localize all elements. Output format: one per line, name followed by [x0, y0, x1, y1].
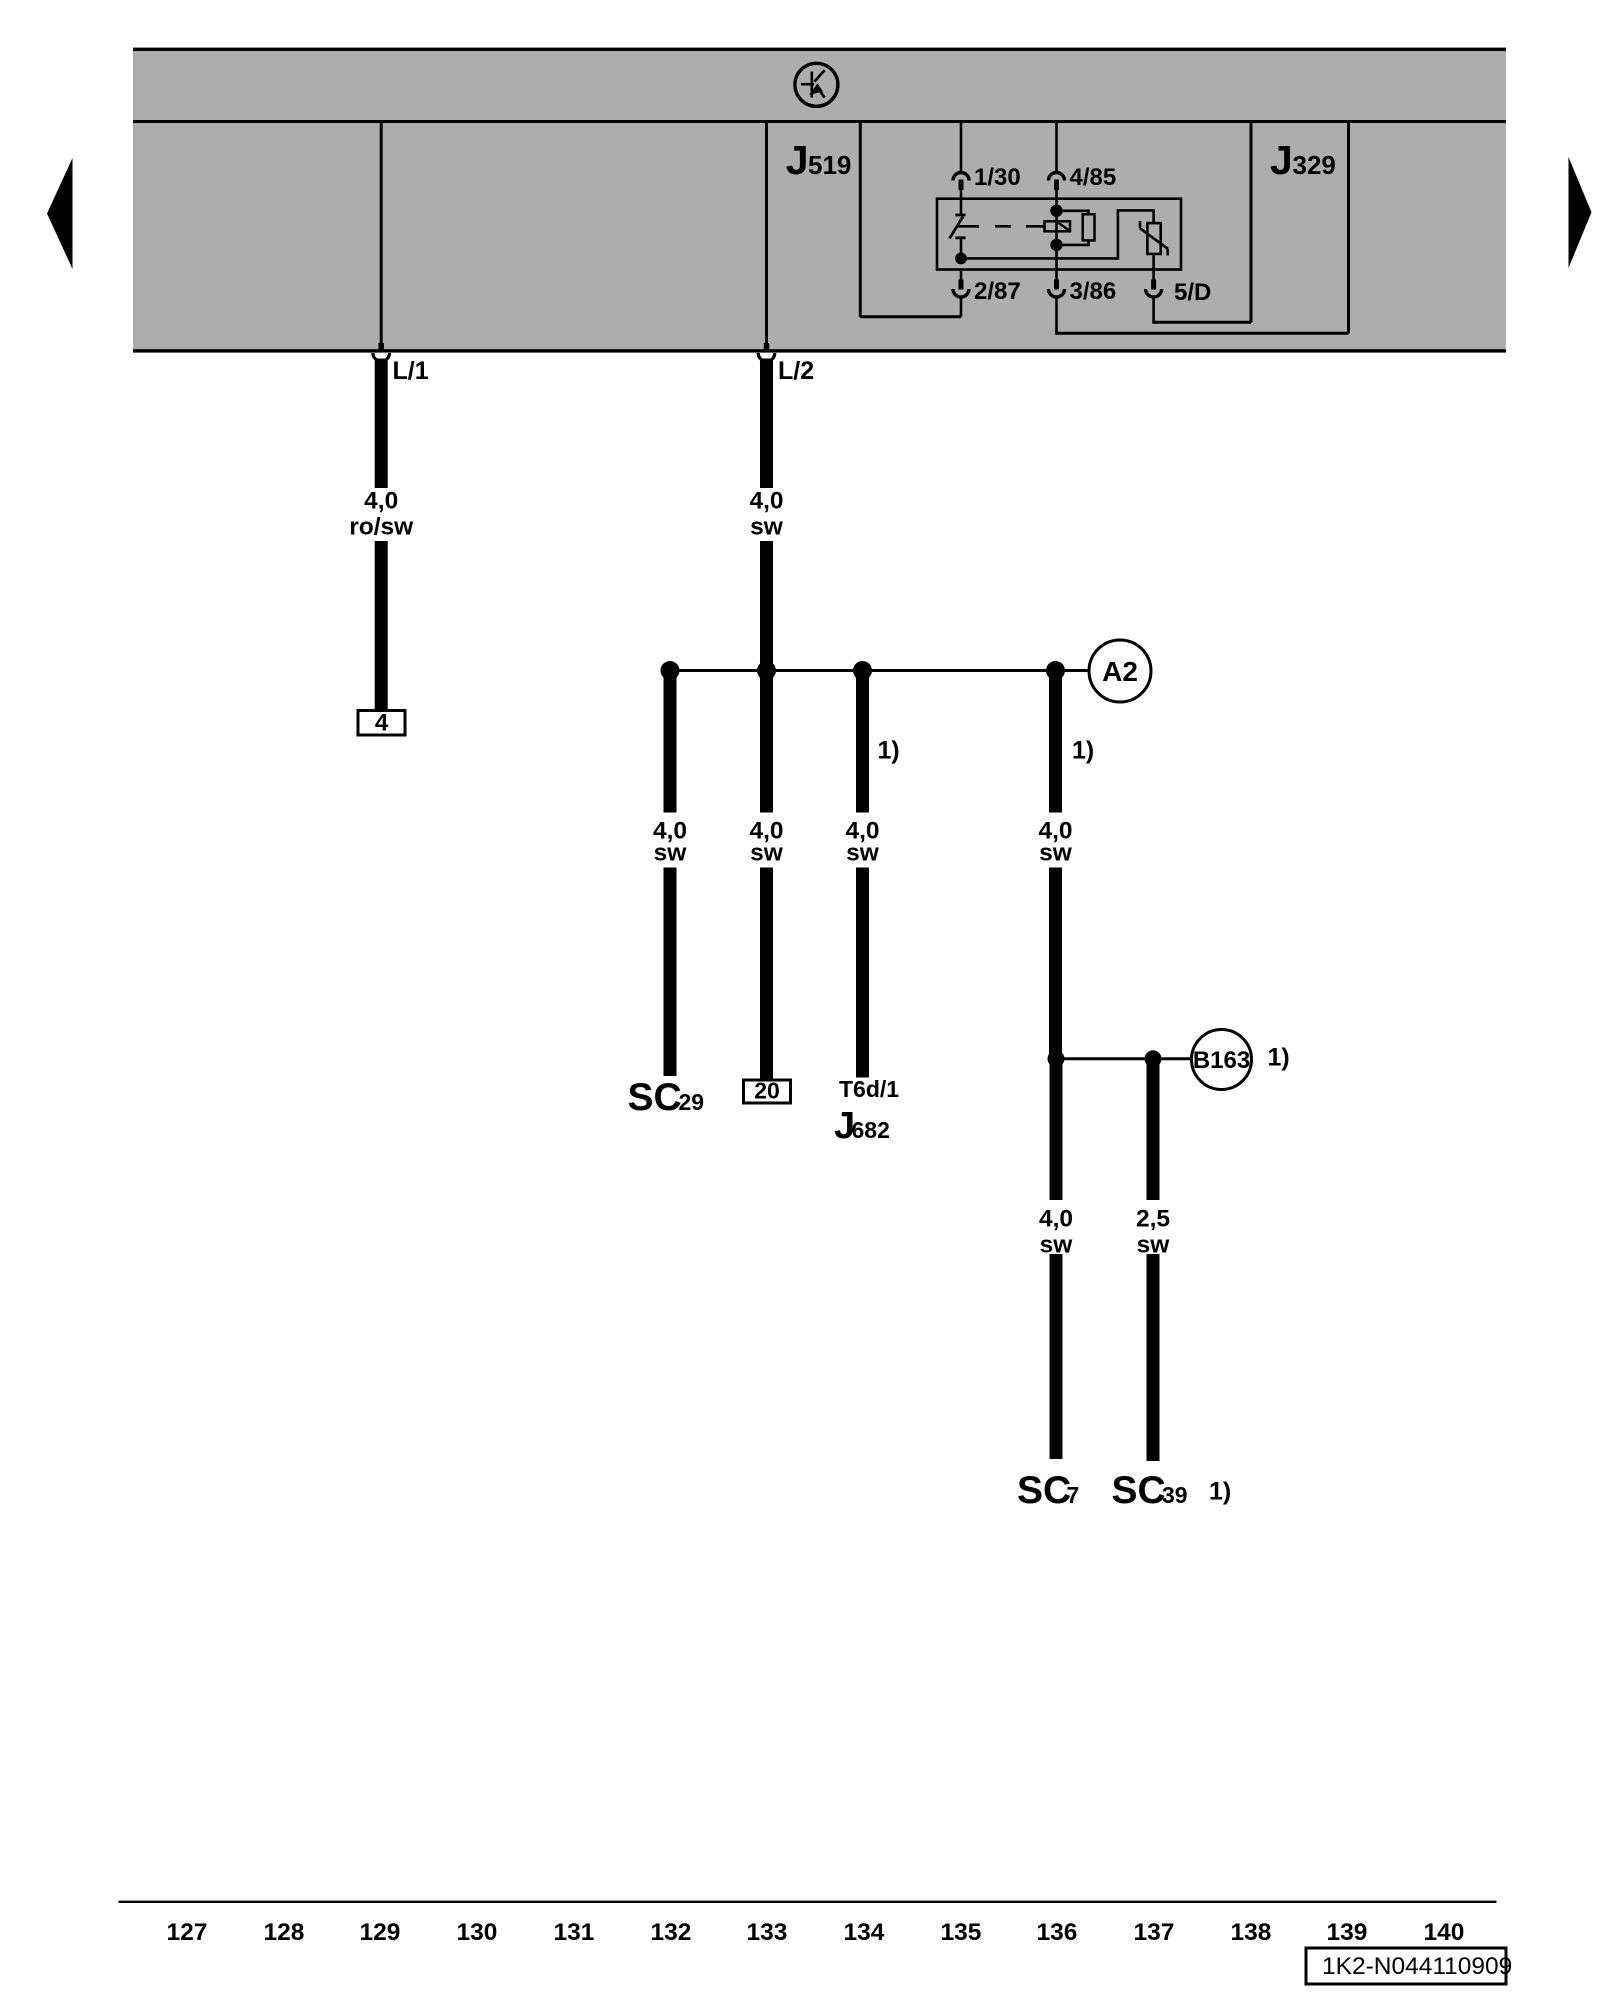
svg-text:138: 138: [1231, 1919, 1272, 1946]
terminal L/1 connector cup: [373, 353, 390, 361]
pin 5/D lead: [1146, 270, 1251, 323]
svg-text:sw: sw: [750, 514, 784, 541]
wire label 2,5 sw (SC39): [1136, 1206, 1170, 1259]
svg-text:134: 134: [844, 1919, 885, 1946]
node bus line to B163: [1056, 1057, 1192, 1060]
svg-text:A2: A2: [1102, 656, 1138, 687]
wire label 4,0 sw (J682): [845, 818, 879, 867]
wire A2 node to B163 node lower: [1049, 868, 1062, 1060]
svg-text:1/30: 1/30: [974, 164, 1021, 191]
terminal L/2 lead inside band: [765, 122, 768, 352]
svg-text:519: 519: [808, 150, 851, 180]
control unit J519 boundary line: [860, 122, 961, 318]
wire label 4,0 sw (L/2 lower): [749, 818, 783, 867]
wire A2 node to B163 node upper: [1049, 671, 1062, 813]
junction dot at switch output: [955, 253, 967, 265]
relay box outline: [937, 199, 1181, 270]
svg-text:131: 131: [554, 1919, 595, 1946]
fuse SC29 label: [628, 1076, 705, 1119]
battery positive symbol: [795, 63, 838, 106]
relay coil: [1045, 199, 1071, 270]
pin 4/85 lead: [1049, 122, 1065, 199]
svg-text:20: 20: [754, 1078, 780, 1104]
svg-text:135: 135: [941, 1919, 982, 1946]
fuse position 20 box: [744, 1078, 791, 1104]
svg-text:4,0: 4,0: [1039, 1206, 1073, 1233]
svg-text:4,0: 4,0: [364, 488, 398, 515]
svg-text:L/2: L/2: [778, 357, 814, 385]
wire to J682 lower segment: [856, 868, 869, 1078]
wire L/2 segment 3: [760, 868, 773, 1081]
svg-text:sw: sw: [846, 840, 880, 867]
wire label 4,0 sw (SC29): [653, 818, 687, 867]
busbar band (power rail area): [133, 48, 1506, 353]
svg-text:3/86: 3/86: [1070, 278, 1117, 305]
pin 2/87 lead: [953, 270, 969, 317]
svg-text:133: 133: [747, 1919, 788, 1946]
fuse SC7 label: [1017, 1469, 1079, 1512]
relay J682 label: [834, 1105, 890, 1147]
right page arrow: [1569, 157, 1592, 268]
svg-text:4,0: 4,0: [749, 488, 783, 515]
svg-text:J: J: [1270, 137, 1293, 183]
junction dot node B163-1: [1048, 1050, 1065, 1067]
svg-text:B163: B163: [1193, 1047, 1250, 1074]
svg-text:1): 1): [1209, 1478, 1231, 1506]
svg-text:329: 329: [1293, 150, 1336, 180]
junction dot node A2-4: [1046, 661, 1065, 680]
wire L/2 segment 2: [760, 541, 773, 813]
junction dot node A2-3: [853, 661, 872, 680]
wire L/2 (4,0 sw) segment 1: [760, 359, 773, 489]
resistor parallel to coil: [1057, 211, 1095, 245]
svg-text:1): 1): [1072, 737, 1094, 765]
relay J329 boundary lines: [1251, 122, 1349, 334]
wire label 4,0 sw (SC7): [1039, 1206, 1073, 1259]
terminal L/2 connector cup: [758, 353, 775, 361]
svg-text:ro/sw: ro/sw: [349, 514, 414, 541]
svg-text:136: 136: [1037, 1919, 1078, 1946]
svg-text:140: 140: [1424, 1919, 1465, 1946]
wire to SC39 upper segment: [1147, 1059, 1160, 1200]
svg-text:L/1: L/1: [393, 357, 429, 385]
svg-text:7: 7: [1067, 1482, 1080, 1508]
svg-text:5/D: 5/D: [1174, 279, 1211, 306]
svg-text:SC: SC: [1112, 1469, 1166, 1512]
relay switch contact: [950, 199, 966, 259]
wire to SC39 lower segment: [1147, 1254, 1160, 1461]
svg-text:139: 139: [1327, 1919, 1368, 1946]
relay actuation dashed link: [958, 225, 1045, 228]
svg-text:29: 29: [679, 1089, 705, 1115]
svg-text:sw: sw: [654, 840, 688, 867]
svg-text:129: 129: [360, 1919, 401, 1946]
svg-text:137: 137: [1134, 1919, 1175, 1946]
wire label 4,0 sw (L/2 upper): [749, 488, 783, 541]
node B163 circle: [1192, 1030, 1252, 1090]
junction dot node A2-2: [757, 661, 776, 680]
svg-text:4/85: 4/85: [1070, 164, 1117, 191]
svg-text:J: J: [786, 137, 809, 183]
svg-text:SC: SC: [1017, 1469, 1071, 1512]
relay J329 label: [1270, 137, 1336, 183]
svg-text:2/87: 2/87: [974, 278, 1021, 305]
junction dot node B163-2: [1145, 1050, 1162, 1067]
current track numbers: [167, 1919, 1465, 1946]
wire to SC7 lower segment: [1050, 1254, 1063, 1459]
current track scale line: [119, 1901, 1497, 1903]
svg-text:2,5: 2,5: [1136, 1206, 1170, 1233]
junction dot node A2-1: [661, 661, 680, 680]
svg-text:127: 127: [167, 1919, 208, 1946]
svg-text:132: 132: [651, 1919, 692, 1946]
svg-text:sw: sw: [750, 840, 784, 867]
svg-text:1): 1): [878, 737, 900, 765]
svg-text:4: 4: [375, 710, 389, 737]
wire label 4,0 ro/sw: [349, 488, 414, 541]
wire to SC7 upper segment: [1050, 1059, 1063, 1200]
left page arrow: [47, 158, 73, 269]
wire to SC29 upper segment: [664, 671, 677, 813]
pin 1/30 lead: [953, 122, 969, 199]
control unit J519 label: [786, 137, 852, 183]
pin 3/86 lead: [1049, 270, 1349, 334]
svg-text:130: 130: [457, 1919, 498, 1946]
svg-text:1): 1): [1268, 1044, 1290, 1072]
wire to SC29 lower segment: [664, 868, 677, 1077]
junction dot coil top: [1050, 205, 1062, 217]
svg-text:T6d/1: T6d/1: [839, 1076, 899, 1102]
svg-text:39: 39: [1162, 1482, 1188, 1508]
terminal L/1 lead inside band: [380, 122, 383, 352]
diagram id box: [1306, 1948, 1512, 1984]
wire L/1 to fuse 4 (4,0 ro/sw) upper: [375, 359, 388, 489]
svg-text:682: 682: [852, 1117, 890, 1143]
fuse position 4 box: [358, 710, 405, 737]
svg-text:sw: sw: [1039, 840, 1073, 867]
svg-text:sw: sw: [1040, 1232, 1074, 1259]
wire L/1 lower segment: [375, 541, 388, 711]
svg-text:SC: SC: [628, 1076, 682, 1119]
thermistor (temperature dependent resistor): [1140, 221, 1168, 270]
junction dot coil bottom: [1050, 239, 1062, 251]
wire label 4,0 sw (A2 branch): [1038, 818, 1072, 867]
svg-text:1K2-N044110909: 1K2-N044110909: [1322, 1953, 1512, 1980]
svg-text:128: 128: [264, 1919, 305, 1946]
fuse SC39 label: [1112, 1469, 1188, 1512]
svg-text:sw: sw: [1137, 1232, 1171, 1259]
wire to J682 upper segment: [856, 671, 869, 813]
wire from switch to thermistor branch: [961, 210, 1154, 258]
node A2 circle: [1089, 640, 1151, 702]
node bus line to A2: [670, 669, 1089, 672]
